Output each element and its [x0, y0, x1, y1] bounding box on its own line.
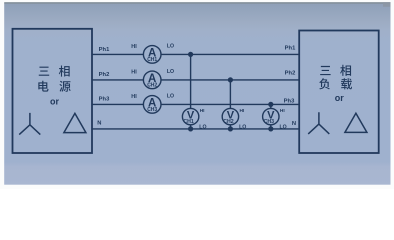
- svg-text:LO: LO: [167, 69, 174, 75]
- svg-text:Ph2: Ph2: [285, 71, 296, 77]
- svg-text:HI: HI: [239, 108, 244, 114]
- svg-text:HI: HI: [280, 108, 285, 114]
- left box text 三: [39, 67, 49, 76]
- left delta symbol: [64, 113, 86, 132]
- wire Ph1 left segment: [92, 53, 143, 55]
- svg-text:LO: LO: [279, 124, 286, 130]
- junction dot on N below CH2: [228, 126, 233, 131]
- ammeter A CH3 circle: [143, 96, 161, 114]
- svg-text:Ph3: Ph3: [284, 98, 295, 104]
- svg-text:or: or: [335, 93, 344, 103]
- svg-text:CH2: CH2: [147, 83, 157, 89]
- right box text 载: [341, 78, 352, 89]
- left box text 源: [59, 81, 70, 92]
- svg-text:or: or: [50, 97, 59, 107]
- junction dot on N below CH3: [268, 126, 273, 131]
- wire tap from Ph3 down to voltmeter CH3: [270, 104, 272, 108]
- right wye symbol: [308, 112, 329, 134]
- wire tap from Ph2 down to voltmeter CH2: [229, 80, 231, 109]
- svg-text:CH3: CH3: [264, 119, 274, 125]
- left wye symbol: [19, 113, 40, 135]
- voltmeter V CH1 circle: [182, 108, 198, 124]
- svg-text:CH3: CH3: [147, 107, 157, 113]
- svg-text:HI: HI: [200, 108, 205, 114]
- left box text 电: [38, 81, 48, 92]
- junction dot on Ph1: [188, 52, 193, 57]
- svg-text:Ph2: Ph2: [99, 72, 110, 78]
- right box text 三: [320, 66, 330, 75]
- top dark edge line: [4, 2, 390, 4]
- load box (three-phase load): [299, 31, 379, 154]
- svg-text:LO: LO: [239, 124, 246, 130]
- svg-text:LO: LO: [167, 93, 174, 99]
- wire Ph3 right segment: [161, 103, 299, 105]
- svg-text:Ph1: Ph1: [99, 47, 110, 53]
- wire tap from Ph1 down to voltmeter CH1: [190, 54, 192, 108]
- svg-text:HI: HI: [131, 44, 137, 50]
- wire voltmeter CH1 to N: [190, 125, 192, 129]
- svg-text:LO: LO: [167, 43, 174, 49]
- top-right corner smudge: [383, 2, 391, 7]
- voltmeter V CH2 circle: [222, 108, 238, 124]
- svg-text:CH1: CH1: [183, 119, 193, 125]
- junction dot on N below CH1: [188, 126, 193, 131]
- svg-text:N: N: [97, 121, 101, 127]
- junction dot on Ph2: [228, 77, 233, 82]
- junction dot on Ph3: [268, 102, 273, 107]
- svg-text:Ph1: Ph1: [285, 46, 296, 52]
- left box text 相: [59, 65, 70, 76]
- ammeter A CH1 circle: [143, 46, 161, 64]
- right delta symbol: [345, 113, 367, 132]
- svg-text:CH2: CH2: [223, 119, 233, 125]
- right box text 负: [319, 78, 330, 89]
- wire Ph1 right segment: [161, 53, 299, 55]
- svg-text:CH1: CH1: [147, 57, 157, 63]
- right box text 相: [340, 65, 351, 76]
- wire Ph2 right segment: [161, 79, 299, 81]
- svg-text:HI: HI: [131, 94, 137, 100]
- svg-text:Ph3: Ph3: [99, 97, 110, 103]
- wire Ph3 left segment: [92, 103, 143, 105]
- ammeter A CH2 circle: [143, 71, 161, 89]
- svg-text:N: N: [292, 121, 296, 127]
- wire voltmeter CH2 to N: [229, 125, 231, 129]
- svg-text:LO: LO: [199, 124, 206, 130]
- voltmeter V CH3 circle: [263, 108, 279, 124]
- source box (three-phase source): [13, 29, 93, 153]
- wire Ph2 left segment: [92, 79, 143, 81]
- svg-text:HI: HI: [131, 69, 137, 75]
- wire voltmeter CH3 to N: [270, 125, 272, 129]
- wire N (neutral): [92, 128, 299, 130]
